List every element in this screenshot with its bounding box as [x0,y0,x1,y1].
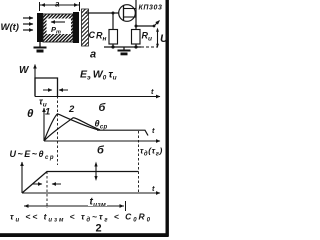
dashed line tau_d [138,131,140,193]
node source junction [135,25,138,28]
svg-text:2: 2 [96,223,102,235]
transistor VT1 KP303 circle [119,5,136,22]
U voltage arrow [157,29,159,47]
svg-text:Eэ W0 τи: Eэ W0 τи [80,69,117,82]
svg-text:C: C [89,30,96,40]
capacitor layer C hatched strip [45,9,126,46]
chart v theta axis vertical [43,108,45,141]
t_izm right tick [125,201,127,211]
transistor drain lead [124,8,137,10]
chart v t axis horizontal [44,140,160,142]
curve 2 [44,118,100,141]
svg-text:2: 2 [68,104,75,115]
node rail left [111,45,114,48]
chart g t axis horizontal [22,192,160,194]
bolometer left electrode [37,13,43,42]
chart b W axis vertical [34,65,36,97]
bottom rail wire [104,46,141,48]
ground rail center [123,47,125,50]
tau dimension arrow left [43,89,52,91]
theta average flat line [97,130,148,135]
t_izm dimension line [24,205,124,207]
chart g U axis vertical [21,162,23,193]
frame bottom border line [0,233,169,237]
transistor source lead [124,16,137,18]
svg-text:1: 1 [45,107,50,118]
resistor Rи [132,30,141,45]
svg-text:б: б [97,145,105,157]
svg-text:W: W [19,65,30,76]
ramp waveform [22,172,139,194]
frame right border line [166,0,169,237]
node rail right [134,45,137,48]
dashed line tau_i [57,78,59,165]
wire junction down to Rи [135,26,137,30]
chart b t axis horizontal [35,96,160,98]
svg-text:КП303: КП303 [139,5,163,12]
dashed wire to U [141,46,158,48]
ramp tau arrow right [52,183,61,185]
curve 1 [44,114,98,141]
power arrow [51,21,65,23]
dashed line ramp end [46,172,48,209]
dimension a line [40,4,79,6]
Rн bottom stub [112,44,114,47]
svg-text:б: б [99,102,107,114]
ramp tau arrow left [33,183,42,185]
Rи bottom stub [135,44,137,47]
power label patch [47,19,72,35]
svg-text:a: a [55,0,60,9]
tau dimension arrow right [59,89,68,91]
label t_izm [88,197,107,206]
svg-text:U: U [160,33,169,45]
pulse waveform [35,78,58,97]
sample amplitude arrow [95,164,97,178]
wire junction down to Rn [112,13,114,30]
node gate junction [112,12,115,15]
dimension a left tick [39,2,41,11]
output terminal [153,25,156,28]
bolometer body hatched [15,14,101,42]
radiation arrow 3 [23,29,33,31]
wire source to output [136,25,154,27]
radiation arrow 2 [23,23,33,25]
bolometer right electrode [73,12,79,43]
transistor channel [123,6,125,21]
wire electrode to gate [85,12,119,14]
ground under left electrode [39,42,41,47]
svg-text:W(t): W(t) [1,22,19,33]
radiation arrow 1 [23,17,33,19]
resistor Rн [109,30,118,45]
svg-text:а: а [90,49,96,61]
drain rail wire [135,0,137,26]
svg-text:θ: θ [27,108,34,120]
dimension a right tick [79,2,81,11]
